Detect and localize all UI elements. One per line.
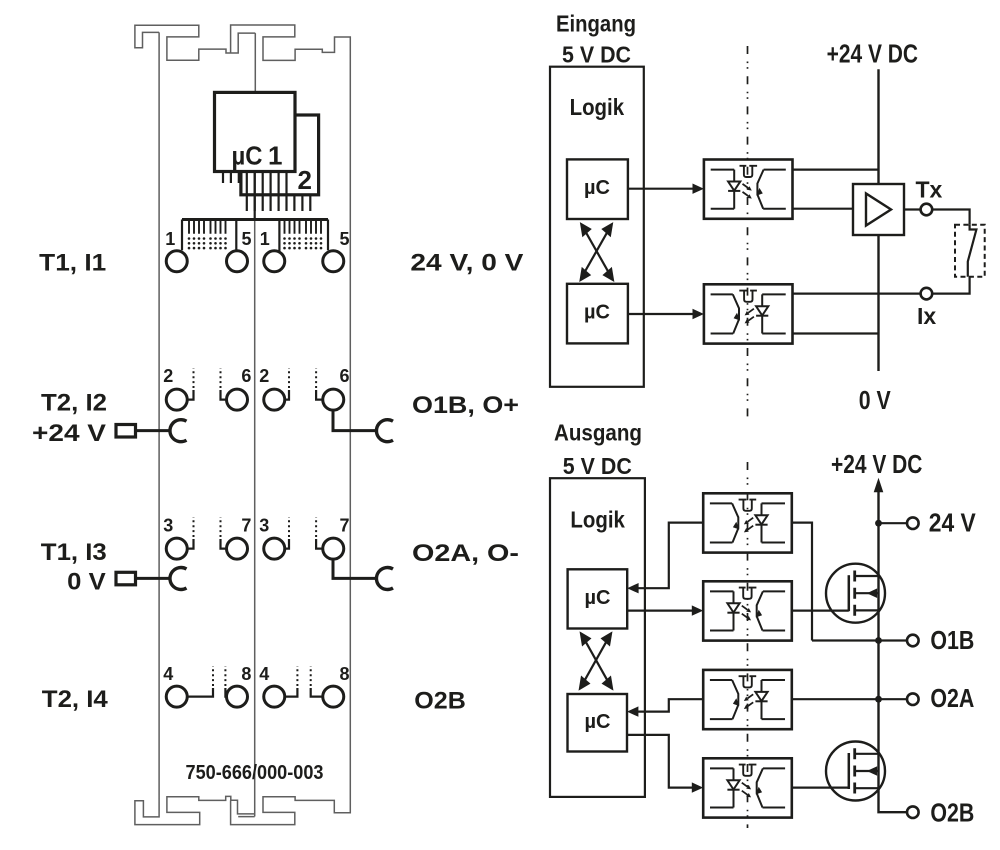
svg-text:µC: µC xyxy=(232,141,263,171)
svg-text:+24 V DC: +24 V DC xyxy=(831,449,923,479)
wire to 24V terminal xyxy=(879,522,908,524)
row 1 stems to terminals xyxy=(182,220,328,253)
svg-text:5 V DC: 5 V DC xyxy=(563,453,632,479)
svg-text:O2A, O-: O2A, O- xyxy=(412,540,519,567)
svg-text:24 V, 0 V: 24 V, 0 V xyxy=(410,249,524,276)
svg-text:4: 4 xyxy=(163,664,173,684)
O1B junction dot xyxy=(875,637,882,644)
row 2 right cage clamp xyxy=(376,420,393,442)
optocoupler OK6 (Ausgang D, LED left) xyxy=(703,758,792,817)
switch dashed box xyxy=(955,225,985,277)
MOSFET T1 xyxy=(826,564,885,623)
optocoupler OK3 (Ausgang A, LED right) xyxy=(703,493,792,552)
row 2 elbow links xyxy=(187,390,323,400)
cross arrows between uC1 and uC2 (Ausgang) xyxy=(580,634,612,689)
svg-text:1: 1 xyxy=(165,229,175,249)
switch contact xyxy=(968,225,977,277)
svg-text:O2B: O2B xyxy=(414,688,466,715)
svg-text:6: 6 xyxy=(340,366,350,386)
row 4 terminal circles xyxy=(166,686,344,707)
svg-text:Ausgang: Ausgang xyxy=(554,420,642,446)
row 1 connector bus bar xyxy=(182,218,328,221)
svg-text:0 V: 0 V xyxy=(859,385,892,415)
svg-text:O1B: O1B xyxy=(930,625,974,655)
svg-text:24 V: 24 V xyxy=(929,507,977,537)
svg-text:T2, I4: T2, I4 xyxy=(42,686,108,713)
svg-text:7: 7 xyxy=(241,515,251,535)
optocoupler OK1 (Eingang top, LED left) xyxy=(704,160,793,219)
row 1 comb dots xyxy=(188,237,323,249)
svg-text:O1B, O+: O1B, O+ xyxy=(412,392,519,419)
wire opto OK1 top to rail xyxy=(793,169,879,171)
uC box 2 (Ausgang) xyxy=(568,694,628,752)
row 3 elbow links xyxy=(187,539,323,549)
svg-text:µC: µC xyxy=(585,710,611,733)
svg-text:Ix: Ix xyxy=(917,303,936,329)
uC box 2 (Eingang) xyxy=(567,284,628,344)
+24V rail with arrow (Ausgang) xyxy=(874,478,884,492)
svg-text:3: 3 xyxy=(259,515,269,535)
O2A line xyxy=(792,698,907,700)
+24V feed square terminal xyxy=(116,425,136,438)
isolation dash-dot line (Ausgang) xyxy=(747,462,749,828)
svg-text:Tx: Tx xyxy=(916,177,943,203)
wire uC2 to opto D with arrow xyxy=(627,735,694,788)
0V feed wire xyxy=(136,577,171,580)
svg-text:2: 2 xyxy=(259,366,269,386)
isolation dash-dot line (Eingang) xyxy=(747,46,749,417)
svg-text:µC: µC xyxy=(584,176,610,199)
amplifier box xyxy=(853,184,904,235)
microcontroller uC 2 (module) xyxy=(241,115,319,195)
Tx terminal circle xyxy=(921,204,933,216)
Logik box (Ausgang) xyxy=(550,478,645,797)
optocoupler OK4 (Ausgang B, LED left) xyxy=(703,581,792,640)
wire uC2 to opto OK2 with arrow xyxy=(628,313,694,315)
amplifier triangle xyxy=(866,194,891,226)
wire opto OK2 bottom to 0V rail xyxy=(793,332,879,334)
row 3 dotted pins xyxy=(194,517,317,537)
row 1 terminal circles xyxy=(166,251,344,272)
svg-text:2: 2 xyxy=(298,165,312,195)
svg-text:O2A: O2A xyxy=(930,683,974,713)
row 4 dotted pins xyxy=(213,666,311,686)
wire uC1 to opto B with arrow xyxy=(627,609,694,611)
svg-text:5: 5 xyxy=(340,229,350,249)
O1B line xyxy=(812,639,907,641)
wire opto OK1 bottom to amplifier xyxy=(793,208,854,210)
svg-text:O2B: O2B xyxy=(930,797,974,827)
row 2 output wire to clamp xyxy=(333,410,377,431)
wire opto A to uC1 with arrow xyxy=(637,523,703,589)
svg-text:1: 1 xyxy=(260,229,270,249)
wire opto OK2 top to Ix xyxy=(793,293,921,295)
row 4 elbow links xyxy=(187,688,323,697)
microcontroller uC 1 (module) xyxy=(215,92,296,171)
row 3 output wire to clamp xyxy=(333,559,377,578)
O2B terminal circle xyxy=(907,806,919,818)
svg-text:T1, I3: T1, I3 xyxy=(41,539,107,566)
svg-text:6: 6 xyxy=(241,366,251,386)
uC box 1 (Ausgang) xyxy=(568,569,628,628)
row 3 terminal circles xyxy=(166,538,344,559)
wire opto C to uC2 with arrow xyxy=(637,699,703,711)
svg-text:µC: µC xyxy=(584,301,610,324)
svg-text:3: 3 xyxy=(163,515,173,535)
svg-text:T1, I1: T1, I1 xyxy=(39,249,106,276)
wire switch to Ix terminal xyxy=(932,277,969,294)
svg-text:5 V DC: 5 V DC xyxy=(562,42,631,68)
O2A terminal circle xyxy=(907,693,919,705)
row 2 dotted pins xyxy=(194,368,317,388)
wire opto B to MOSFET T1 gate xyxy=(792,609,849,611)
uC2 pin teeth xyxy=(247,195,310,211)
svg-text:µC: µC xyxy=(585,586,611,609)
0V feed square terminal xyxy=(116,572,136,585)
svg-text:750-666/000-003: 750-666/000-003 xyxy=(186,762,324,784)
svg-text:+24 V: +24 V xyxy=(32,420,107,447)
wire opto A output to O1B line xyxy=(792,523,812,641)
svg-text:4: 4 xyxy=(259,664,269,684)
svg-text:0 V: 0 V xyxy=(67,568,106,595)
0V cage clamp xyxy=(170,568,187,590)
svg-text:+24 V DC: +24 V DC xyxy=(827,39,919,69)
svg-text:Eingang: Eingang xyxy=(556,11,636,37)
svg-text:1: 1 xyxy=(268,141,282,171)
svg-text:7: 7 xyxy=(340,515,350,535)
+24V cage clamp xyxy=(170,420,187,442)
wire opto D to MOSFET T2 gate xyxy=(792,786,849,788)
svg-text:5: 5 xyxy=(242,229,252,249)
module housing top claw right + right edge xyxy=(231,25,351,825)
svg-text:8: 8 xyxy=(241,664,251,684)
svg-text:Logik: Logik xyxy=(570,507,625,533)
svg-text:Logik: Logik xyxy=(570,94,625,120)
module housing top claw left xyxy=(135,25,255,60)
wire stem from housing to uC1 xyxy=(254,172,256,219)
O1B terminal circle xyxy=(907,635,919,647)
uC box 1 (Eingang) xyxy=(567,159,628,219)
MOSFET T2 xyxy=(826,742,885,801)
row 1 comb teeth xyxy=(189,221,321,234)
O2A junction dot xyxy=(875,696,882,703)
24 V tap junction dot xyxy=(875,520,882,527)
cross arrows between uC1 and uC2 (Eingang) xyxy=(581,224,613,280)
svg-text:T2, I2: T2, I2 xyxy=(41,390,107,417)
wire Tx to switch xyxy=(932,210,969,225)
module center divider xyxy=(254,33,257,816)
uC1 pin teeth xyxy=(223,172,287,195)
+24V feed wire xyxy=(136,429,171,432)
+24V rail (Eingang) xyxy=(877,69,879,184)
module housing left edge + bottom claw left xyxy=(135,32,255,824)
wire uC1 to opto OK1 with arrow xyxy=(628,188,694,190)
svg-text:8: 8 xyxy=(340,664,350,684)
optocoupler OK5 (Ausgang C, LED right) xyxy=(703,670,792,729)
optocoupler OK2 (Eingang bottom, LED right) xyxy=(704,284,793,343)
wire amplifier to Tx terminal xyxy=(904,208,921,210)
row 2 terminal circles xyxy=(166,389,344,410)
Ix terminal circle xyxy=(921,288,933,300)
Logik box (Eingang) xyxy=(550,67,644,387)
svg-text:2: 2 xyxy=(163,366,173,386)
24V terminal circle xyxy=(907,517,919,529)
row 3 right cage clamp xyxy=(376,568,393,590)
